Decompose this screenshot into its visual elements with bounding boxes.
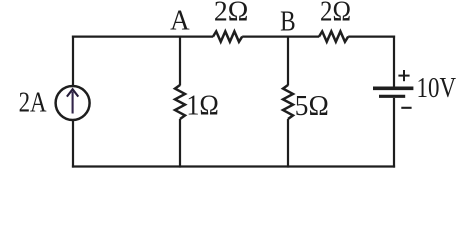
node A wire stub lower [179, 119, 181, 168]
svg-text:A: A [170, 5, 190, 37]
resistor R3 1ohm (vertical at node A) [175, 85, 185, 119]
wire top segment right (R2 to battery branch) [348, 35, 395, 37]
svg-text:2A: 2A [19, 87, 47, 119]
wire bottom rail [72, 165, 395, 167]
node B wire stub upper [287, 37, 289, 86]
current source I1 circle [56, 86, 90, 120]
wire left branch upper (top wire to current source) [72, 36, 74, 86]
wire right branch lower (battery minus plate to bottom wire) [393, 98, 395, 168]
wire left branch lower (current source to bottom wire) [72, 120, 74, 167]
wire right branch upper (top wire to battery plus plate) [393, 36, 395, 88]
resistor R1 2ohm (between A and B) [213, 31, 242, 41]
svg-text:2Ω: 2Ω [214, 0, 249, 28]
battery minus sign [401, 107, 411, 109]
svg-text:1Ω: 1Ω [186, 89, 219, 121]
node B wire stub lower [287, 119, 289, 168]
battery V1 positive plate (long) [373, 86, 413, 90]
svg-text:5Ω: 5Ω [295, 90, 329, 122]
svg-text:B: B [280, 6, 296, 38]
svg-text:10V: 10V [417, 72, 457, 104]
battery V1 negative plate (short) [379, 95, 405, 98]
resistor R4 5ohm (vertical at node B) [283, 85, 293, 119]
svg-text:2Ω: 2Ω [320, 0, 351, 28]
node A wire stub upper [179, 37, 181, 86]
wire top segment left (node A tap to resistor R1) [72, 35, 213, 37]
wire top segment middle (R1 to node B) [242, 35, 319, 37]
current source I1 arrow [67, 89, 78, 113]
battery plus sign [398, 70, 409, 81]
resistor R2 2ohm (between B and battery) [319, 31, 348, 41]
